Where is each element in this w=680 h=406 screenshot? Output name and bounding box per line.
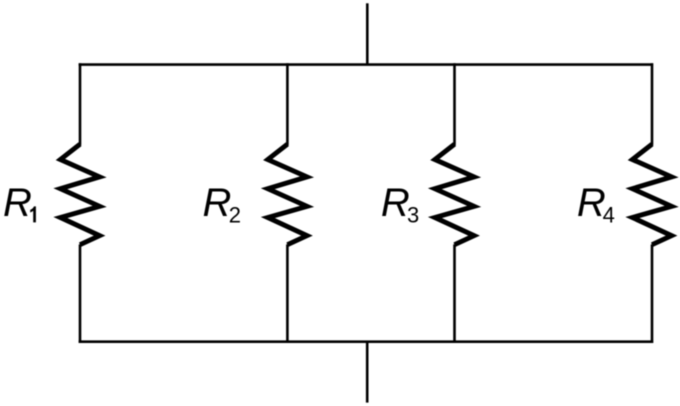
wire: R3 bottom lead xyxy=(453,244,456,343)
resistor R3 xyxy=(435,144,474,245)
wire: R2 top lead xyxy=(286,63,289,145)
label R1 subscript 1 xyxy=(30,206,36,222)
wire: bottom bus (node B) xyxy=(79,340,653,343)
resistor R4 xyxy=(632,144,671,245)
wire: R3 top lead xyxy=(453,63,456,145)
resistor R1 xyxy=(60,144,99,245)
svg-text:R4: R4 xyxy=(577,181,615,228)
wire: bottom supply stub xyxy=(366,342,369,403)
svg-text:R2: R2 xyxy=(203,181,242,228)
wire: R2 bottom lead xyxy=(286,244,289,343)
resistor R2 xyxy=(268,144,307,245)
wire: R1 top lead xyxy=(79,63,82,145)
svg-text:R3: R3 xyxy=(381,181,419,228)
wire: top bus (node A) xyxy=(79,63,653,66)
wire: R4 top lead xyxy=(651,63,654,145)
wire: top supply stub xyxy=(366,3,369,64)
svg-text:R: R xyxy=(3,181,32,225)
wire: R1 bottom lead xyxy=(79,244,82,343)
wire: R4 bottom lead xyxy=(651,244,654,343)
